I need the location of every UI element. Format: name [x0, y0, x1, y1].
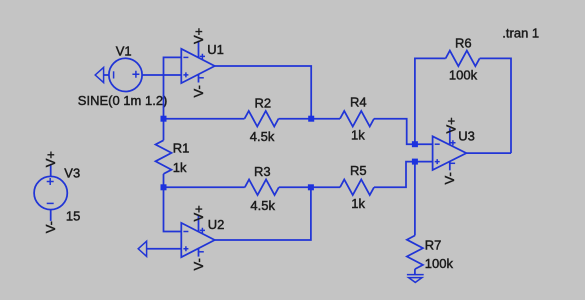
svg-text:V+: V+: [43, 151, 58, 167]
junction U2 output / R3 / R5: [308, 184, 314, 190]
ground at R7 (down-pointing): [407, 275, 424, 283]
op-amp U1: [181, 41, 214, 83]
voltage source V3: [34, 164, 67, 221]
resistor R2: [245, 111, 279, 127]
resistor R5: [340, 180, 374, 196]
svg-text:U1: U1: [207, 42, 224, 57]
svg-text:V+: V+: [191, 28, 206, 44]
svg-text:V+: V+: [443, 117, 458, 133]
svg-text:V-: V-: [43, 221, 58, 233]
wire ground to V1: [104, 74, 109, 76]
op-amp U3: [433, 128, 467, 170]
wire R6 right leg: [480, 58, 511, 153]
wire R6 left leg: [415, 58, 446, 144]
ground at U2 + input (left-pointing): [138, 241, 146, 256]
svg-text:V-: V-: [191, 85, 206, 97]
svg-text:V3: V3: [64, 166, 80, 181]
svg-text:U2: U2: [208, 217, 225, 232]
wire R4 to U3 inverting input: [374, 119, 433, 145]
svg-text:U3: U3: [458, 128, 475, 143]
wire U2 output up to node: [215, 187, 311, 240]
svg-text:R5: R5: [350, 163, 367, 178]
wire U3 output: [466, 152, 511, 154]
voltage source V1: [109, 58, 142, 91]
wire U1 output down to node: [215, 66, 312, 119]
wire V1 to U1 + input: [142, 74, 181, 76]
node Y junction: [161, 184, 167, 190]
svg-text:V-: V-: [442, 172, 457, 184]
svg-text:R3: R3: [254, 164, 271, 179]
svg-text:V+: V+: [191, 205, 206, 221]
resistor R4: [340, 111, 374, 127]
svg-text:R6: R6: [455, 35, 472, 50]
node X junction: [161, 116, 167, 122]
wire U2 feedback (inverting input to node Y): [164, 187, 182, 231]
svg-text:1k: 1k: [351, 196, 365, 211]
svg-text:4.5k: 4.5k: [250, 198, 275, 213]
ground at V1 (left-pointing): [95, 67, 103, 82]
svg-text:V1: V1: [116, 43, 132, 58]
svg-text:R4: R4: [350, 95, 367, 110]
wire R2 to R4: [279, 118, 341, 120]
svg-text:4.5k: 4.5k: [250, 129, 275, 144]
op-amp U2: [181, 215, 214, 257]
resistor R7: [407, 162, 423, 275]
wire node Y row: [164, 186, 245, 188]
wire ground to U2 + input: [147, 248, 182, 250]
svg-text:1k: 1k: [351, 128, 365, 143]
svg-text:100k: 100k: [449, 68, 478, 83]
svg-text:R1: R1: [173, 141, 190, 156]
svg-text:SINE(0 1m 1.2): SINE(0 1m 1.2): [78, 93, 168, 108]
wire R3 to R5: [279, 186, 340, 188]
junction U1 output / R2 / R4: [308, 116, 314, 122]
svg-text:15: 15: [66, 208, 80, 223]
junction R7 / U3 non-inverting input: [412, 159, 418, 165]
wire R5 to U3 non-inverting input: [374, 162, 433, 188]
svg-text:R2: R2: [255, 95, 272, 110]
svg-text:.tran 1: .tran 1: [502, 25, 539, 40]
svg-text:V-: V-: [191, 258, 206, 270]
svg-text:100k: 100k: [425, 256, 454, 271]
resistor R6: [446, 51, 480, 67]
svg-text:1k: 1k: [173, 160, 187, 175]
resistor R1: [156, 119, 172, 188]
junction R6 left leg / U3 inverting input: [412, 141, 418, 147]
resistor R3: [245, 180, 279, 196]
wire node X row: [164, 118, 245, 120]
svg-text:R7: R7: [425, 238, 442, 253]
wire U1 feedback (inverting input to node X): [164, 57, 182, 118]
